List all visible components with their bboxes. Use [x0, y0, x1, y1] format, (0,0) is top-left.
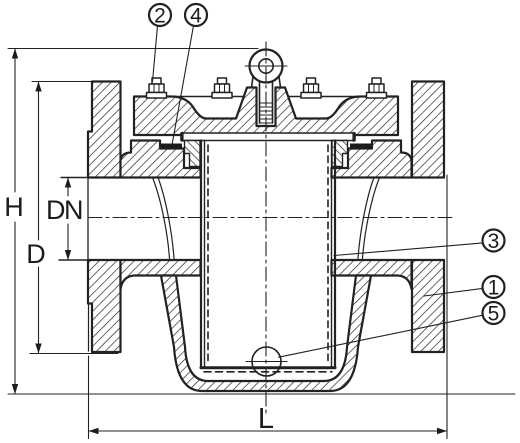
callout leader 1: [424, 288, 483, 296]
left flange raised face edge line: [88, 304, 90, 352]
clamp ring left: [185, 141, 201, 167]
callout leader 2: [153, 26, 158, 82]
svg-text:5: 5: [488, 303, 500, 326]
eyebolt ring: [250, 50, 283, 83]
cover (bonnet) section: [134, 88, 398, 136]
cover flange rim projected edge: [134, 96, 398, 98]
eyebolt threads: [260, 103, 273, 123]
left flange lower bar: [88, 260, 121, 352]
callout leader 4: [172, 26, 194, 145]
right flange upper bar: [412, 82, 444, 178]
right flange lower bar: [412, 260, 444, 352]
svg-text:3: 3: [488, 230, 500, 253]
callout circle 5: [483, 302, 505, 324]
drain plug circle: [252, 347, 281, 376]
eyebolt crosshair: [245, 65, 287, 67]
strainer bottom plate: [201, 366, 335, 369]
horizontal centerline: [88, 217, 452, 219]
body bowl: [161, 276, 371, 392]
strainer bottom hidden dashes: [204, 371, 332, 373]
svg-text:D: D: [26, 239, 46, 269]
dimension extension bottom: [8, 393, 515, 395]
L extension right: [446, 175, 448, 439]
bowl opening projected edge left: [153, 178, 170, 259]
body upper hub left: [121, 141, 201, 178]
eyebolt ring base: [252, 77, 281, 88]
DN dimension line: [65, 178, 71, 261]
svg-text:H: H: [4, 192, 24, 222]
svg-text:1: 1: [488, 277, 500, 300]
bolt 3: [301, 78, 321, 98]
strainer cylinder left wall: [200, 141, 202, 369]
svg-text:4: 4: [190, 5, 202, 28]
callout circle 4: [185, 4, 207, 26]
svg-text:DN: DN: [46, 195, 82, 225]
H dimension line: [12, 49, 18, 395]
callout circle 1: [483, 276, 505, 298]
svg-text:2: 2: [154, 5, 166, 28]
strainer cylinder left hidden dashes: [207, 145, 209, 364]
L dimension line: [89, 428, 448, 434]
callout leader 5: [279, 315, 483, 357]
bolt 1: [147, 78, 167, 98]
bolt 4: [367, 78, 387, 98]
D bottom extension: [30, 353, 118, 355]
callout leader 3: [334, 243, 483, 256]
L extension left: [88, 356, 90, 439]
gasket right (solid black): [350, 144, 372, 149]
body lower hub left: [121, 260, 201, 289]
bolt 2: [212, 78, 232, 98]
vertical centerline: [265, 42, 267, 416]
seat plate (liner flange): [181, 133, 355, 141]
left flange face line across bore: [87, 178, 89, 261]
gasket left (solid black): [161, 144, 183, 149]
bore top edge line: [61, 177, 201, 179]
drain plug crosshair: [246, 361, 287, 363]
strainer cylinder right hidden dashes: [327, 145, 329, 364]
eyebolt hole bottom: [257, 125, 276, 127]
bowl opening projected edge right: [363, 178, 380, 259]
left flange upper bar: [88, 82, 121, 178]
eyebolt shank: [260, 82, 273, 123]
callout circle 3: [483, 230, 505, 252]
body lower hub right: [332, 260, 412, 289]
body upper hub right: [332, 141, 412, 178]
callout circle 2: [149, 4, 171, 26]
D dimension line: [35, 82, 41, 354]
strainer cylinder right wall: [334, 141, 336, 369]
bore bottom edge line: [59, 259, 170, 261]
dimension extension top: [8, 48, 258, 50]
clamp ring right: [332, 141, 348, 167]
svg-text:L: L: [258, 403, 274, 435]
D top extension: [32, 81, 92, 83]
